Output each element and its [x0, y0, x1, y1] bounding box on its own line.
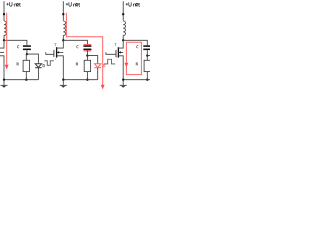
ground 1	[3, 80, 5, 85]
ground 3	[122, 80, 124, 85]
node resistor bottom 1	[25, 79, 27, 81]
resistor R 3 (load)	[146, 56, 148, 61]
resistor R 1 (load)	[25, 54, 27, 60]
ground 2	[62, 80, 64, 85]
inductor L 1 (parasitic line inductance)	[4, 21, 6, 35]
wire capacitor to mid node 1	[26, 50, 28, 54]
wire bottom return 3	[123, 79, 157, 81]
wire drain node to capacitor 2	[63, 40, 87, 45]
node top tap 3	[122, 13, 124, 15]
node drain junction 1	[3, 39, 5, 41]
gate signal marker dot circuit 2	[54, 58, 57, 61]
capacitor C 2	[83, 45, 91, 47]
wire bottom return 2	[63, 79, 97, 81]
wire bottom return 1	[4, 79, 38, 81]
gate drive negative pulse symbol circuit 2	[44, 61, 54, 66]
node mid junction 3	[146, 54, 148, 56]
label C 3	[137, 46, 139, 48]
node top tap 1	[3, 13, 5, 15]
transistor T 1 (MOSFET switch)	[0, 40, 4, 79]
label +U net 3	[126, 2, 140, 6]
node source bottom 1	[3, 79, 5, 81]
label T 3	[114, 44, 116, 47]
node drain junction 3	[122, 39, 124, 41]
label C 1	[17, 46, 19, 48]
gate signal marker dot circuit 3	[115, 56, 118, 59]
inductor L 3 (parasitic line inductance)	[123, 21, 125, 35]
label C 2	[77, 46, 79, 48]
node top tap 2	[62, 13, 64, 15]
wire +U supply rail 2	[62, 1, 64, 21]
node resistor bottom 2	[86, 79, 88, 81]
inductor L 2 (parasitic line inductance)	[63, 21, 65, 35]
node mid junction 1	[26, 53, 28, 55]
red current loop circuit 2	[66, 13, 102, 85]
wire rail below inductor 2	[62, 35, 64, 40]
wire mid node to diode 1	[27, 54, 39, 64]
node resistor bottom 3	[146, 79, 148, 81]
red current loop circuit 3	[126, 42, 141, 74]
wire rail below inductor 3	[122, 35, 124, 40]
capacitor C 3	[143, 45, 151, 47]
diode D 2 (freewheeling)	[94, 64, 101, 68]
capacitor C 1	[23, 45, 31, 47]
wire rail below inductor 1	[3, 35, 5, 40]
label R 2	[76, 63, 78, 66]
node drain junction 2	[62, 39, 64, 41]
node mid junction 2	[86, 54, 88, 56]
label D 2	[103, 64, 105, 67]
wire drain node to capacitor 1	[4, 40, 27, 45]
label +U net 1	[7, 2, 21, 6]
gate drive positive pulse symbol circuit 3	[104, 59, 115, 64]
resistor R 2 (load)	[86, 56, 88, 61]
transistor T 2 (MOSFET switch)	[46, 40, 64, 79]
label +U net 2	[66, 2, 80, 6]
node source bottom 3	[122, 79, 124, 81]
diode D 3 (freewheeling)	[154, 64, 161, 68]
transistor T 3 (MOSFET switch)	[106, 40, 123, 79]
wire +U supply rail 1	[3, 1, 5, 21]
wire diode to bottom 2	[97, 68, 99, 80]
wire +U supply rail 3	[122, 1, 124, 21]
red current arrow circuit 1	[6, 13, 8, 65]
wire diode to bottom 1	[37, 68, 39, 80]
red highlight on capacitor plates 2	[84, 44, 92, 45]
wire capacitor to mid node 2	[86, 50, 88, 56]
diode D 1 (freewheeling)	[35, 64, 42, 68]
label D 1	[43, 64, 45, 67]
wire drain node to capacitor 3	[123, 40, 147, 45]
wire mid node to diode 2	[87, 56, 97, 64]
wire diode to bottom 3	[157, 68, 159, 80]
label R 1	[17, 63, 19, 66]
wire mid node to diode 3	[147, 56, 157, 64]
label T 2	[55, 44, 57, 47]
wire capacitor to mid node 3	[146, 50, 148, 56]
label R 3	[136, 63, 138, 66]
node source bottom 2	[62, 79, 64, 81]
